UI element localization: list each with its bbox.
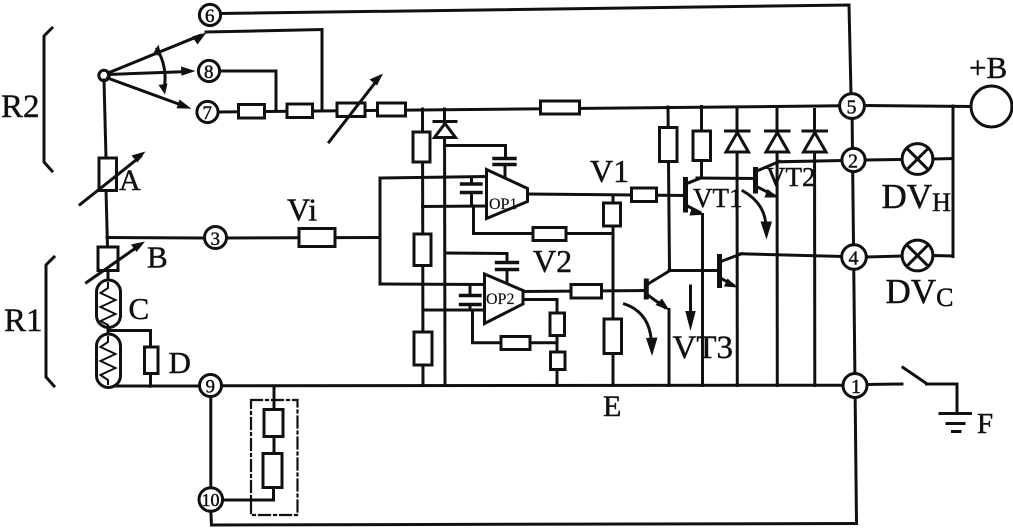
wire: VT3a emitter column <box>668 310 671 386</box>
resistor: OP1 feedback R <box>533 228 566 241</box>
transistor VT2 collector diagonal <box>756 162 780 172</box>
pin 6 <box>199 4 220 27</box>
arrow: current arrow straight near VT3 <box>689 286 692 314</box>
svg-text:VT3: VT3 <box>673 330 734 366</box>
wire: bias column x=668 <box>668 107 670 271</box>
capacitor: OP2 compensation <box>497 263 518 270</box>
svg-text:VT2: VT2 <box>766 162 816 192</box>
wire: OP1 feedback loop <box>474 206 614 234</box>
wire: VT1 collector link to VT2 base <box>697 177 756 181</box>
wire: wiper arrow to 8 <box>109 72 189 75</box>
pin 1 <box>843 374 867 399</box>
arrow: curved current arrow near VT2 <box>743 191 766 228</box>
wire: C to D <box>107 327 110 335</box>
transistor Q: VT1 emitter diagonal <box>686 205 701 213</box>
svg-text:+B: +B <box>969 50 1007 85</box>
svg-text:OP1: OP1 <box>489 196 517 213</box>
svg-text:Vi: Vi <box>287 192 317 228</box>
diode D3 <box>803 131 827 152</box>
switch: ignition switch blade <box>903 368 927 384</box>
svg-text:R1: R1 <box>4 303 43 339</box>
wire: OP2 aux output branch <box>523 300 558 386</box>
svg-text:6: 6 <box>205 6 215 27</box>
arrow: resistor A wiper <box>80 157 141 205</box>
arrow: curved current arrow near VT3a <box>625 304 652 345</box>
resistor: D parallel R <box>145 347 159 374</box>
wire: diode2 column <box>776 110 779 386</box>
wire: OP2 upper input rail <box>380 283 485 287</box>
wire: V1 node column down to bottom rail (node E) <box>612 195 615 386</box>
resistor: divider chain R3 (x=422 bottom) <box>414 332 432 365</box>
diode D2 <box>766 131 790 152</box>
wire: link between external resistors <box>273 437 276 454</box>
resistor: divider chain R2 (x=422 mid) <box>414 234 431 266</box>
op-amp OP2 <box>485 274 524 324</box>
resistor: V1 node upper R <box>604 203 621 226</box>
diode: zener on x=445 <box>434 122 456 138</box>
resistor: OP2 feedback R <box>501 337 530 350</box>
transistor VT1 base bar <box>683 180 688 211</box>
wire: bottom mid rail pin9 to pin1 <box>222 384 844 388</box>
svg-text:DVC: DVC <box>886 272 954 312</box>
wire: diode3 column <box>813 110 816 386</box>
resistor: aux branch R upper <box>550 313 565 336</box>
wire: OP1 output to VT1 base <box>528 194 685 196</box>
arrow: adjustable R arrow <box>329 79 378 142</box>
wire: top frame from pin 6 to right edge <box>220 5 851 94</box>
capacitor: OP1 input <box>462 184 482 193</box>
lamp DVH <box>902 144 933 175</box>
resistor: OP2 output series R <box>571 285 602 299</box>
svg-text:10: 10 <box>202 490 220 510</box>
svg-text:F: F <box>977 408 993 440</box>
svg-text:4: 4 <box>849 248 859 270</box>
pin 8 <box>198 60 219 83</box>
wire: OP1 compensation cap link <box>445 146 506 158</box>
wire: OP2 feedback loop <box>473 310 558 343</box>
resistor: external R top <box>264 410 283 437</box>
pin 7 <box>197 101 218 124</box>
resistor: VT1 bias R left <box>660 128 678 162</box>
transistor VT3a emitter diagonal <box>646 294 665 308</box>
wire: diode1 column <box>736 110 739 386</box>
wire: pin5 to +B terminal <box>865 106 972 107</box>
wire: pin4 to lamp DVC <box>867 256 903 257</box>
svg-text:8: 8 <box>204 62 214 83</box>
wire: external resistor bottom to pin10 <box>223 488 274 501</box>
wire: lamp DVH to feed <box>933 157 953 161</box>
transistor VT3b collector diagonal <box>720 254 742 262</box>
transistor VT3a base bar <box>644 281 649 297</box>
transistor VT3b base bar <box>717 257 722 286</box>
svg-text:OP2: OP2 <box>486 291 514 308</box>
wire: wiper node down to resistor A <box>104 80 106 158</box>
pin 5 <box>840 94 865 119</box>
wire: A to B chain with tap to pin3 <box>106 190 108 247</box>
transistor Q: VT1 collector diagonal <box>686 178 703 185</box>
wire: diode column x=445 <box>443 109 447 386</box>
wire: OP1 upper input rail <box>380 177 487 179</box>
resistor: pin7 row R b <box>287 104 313 118</box>
transistor VT3b emitter diagonal <box>720 278 734 286</box>
wire: input split vertical <box>379 178 382 284</box>
svg-text:V2: V2 <box>533 243 572 279</box>
wire: OP1 lower input <box>423 205 487 209</box>
capacitor: OP1 compensation <box>494 159 515 165</box>
pin 9 <box>200 375 222 398</box>
capacitor: OP2 input <box>461 296 481 305</box>
resistor: divider chain R1 (x=422 top) <box>413 132 430 162</box>
ground: symbol F <box>940 414 971 432</box>
wire: pin1 to switch <box>867 383 902 387</box>
wire: wiper arrow to 6 <box>108 36 200 74</box>
svg-text:V1: V1 <box>590 153 629 189</box>
wire: divider chain vertical x=422 <box>421 109 425 386</box>
svg-text:B: B <box>147 240 168 275</box>
resistor: VT1 bias R right <box>693 131 711 161</box>
thermistor D <box>97 334 121 388</box>
wire: OP2 compensation cap link <box>445 253 507 262</box>
pin 4 <box>842 245 867 270</box>
wire: pin8 branch <box>220 71 277 111</box>
wire: lamp DVC to feed <box>933 254 953 258</box>
wire: pin2 row <box>778 161 843 162</box>
svg-text:2: 2 <box>848 151 858 173</box>
resistor: OP1 output series R <box>632 188 657 202</box>
resistor A (variable) <box>99 158 117 191</box>
wire: OP2 lower input <box>423 309 485 312</box>
transistor VT2 emitter diagonal <box>756 186 775 196</box>
wire: D bottom to pin 9 <box>108 381 200 386</box>
resistor: adjustable R on rail <box>337 103 365 117</box>
svg-text:VT1: VT1 <box>693 183 743 213</box>
wire: OP2 output to VT3 base <box>523 291 647 292</box>
svg-text:A: A <box>119 164 141 197</box>
wire: D parallel resistor taps <box>109 331 151 348</box>
pin 2 <box>842 148 865 172</box>
wire: wiper arrow to 7 <box>108 78 185 106</box>
svg-text:7: 7 <box>203 103 213 124</box>
resistor: pin7 row R a <box>239 105 265 119</box>
bracket R1 <box>46 257 54 386</box>
resistor Vi <box>299 229 335 247</box>
resistor: main rail series R <box>541 101 580 114</box>
wire: pin9 to pin10 <box>209 397 212 489</box>
svg-text:9: 9 <box>206 377 216 398</box>
wire: tap to pin 3 <box>107 236 203 240</box>
wire: bottom frame rail <box>212 524 857 526</box>
svg-text:C: C <box>129 291 150 326</box>
arc: wiper range indicator <box>157 49 165 89</box>
svg-text:1: 1 <box>851 376 861 398</box>
node: R2 wiper node <box>99 70 109 80</box>
wire: bias column x=701.5 upper <box>700 107 703 179</box>
wire: pin6 inner branch <box>206 30 322 111</box>
terminal +B <box>971 86 1012 127</box>
diode D1 <box>726 131 750 152</box>
wire: switch to ground <box>927 384 958 413</box>
svg-text:R2: R2 <box>1 89 40 125</box>
lamp DVC <box>902 240 933 271</box>
wire: lamp feed column <box>952 106 955 257</box>
wire: pin10 to bottom rail <box>209 511 213 525</box>
box: dash-dot enclosure <box>251 400 298 515</box>
resistor: external R bottom <box>263 454 282 488</box>
resistor: rail R after adjustable <box>378 103 406 116</box>
wire: VT1 emitter column <box>701 215 704 386</box>
wire: external resistor stub from bottom rail <box>273 386 276 410</box>
wire: pin2 to lamp DVH <box>866 158 903 162</box>
resistor: aux branch R lower <box>551 352 566 370</box>
wire: right edge column pins 5-2-4-1 <box>852 106 857 523</box>
thermistor C <box>97 280 121 328</box>
pin 3 <box>205 227 227 251</box>
transistor VT2 base bar <box>753 170 758 192</box>
svg-text:E: E <box>603 390 621 423</box>
svg-text:3: 3 <box>211 229 221 250</box>
svg-text:5: 5 <box>847 97 857 119</box>
resistor B (variable) <box>98 247 118 271</box>
pin 10 <box>199 488 223 512</box>
arrow: resistor B wiper <box>87 245 141 283</box>
wire: main top rail pin7 to pin5 <box>218 106 840 112</box>
bracket R2 <box>44 28 52 171</box>
wire: pin3 to input divider via Vi <box>224 236 381 240</box>
transistor VT3a collector diagonal <box>646 271 670 286</box>
svg-text:DVH: DVH <box>882 177 952 217</box>
op-amp OP1 <box>487 170 528 219</box>
wire: B to C <box>107 271 110 282</box>
wire: VT3a collector to VT3b base <box>669 269 720 272</box>
wire: pin4 row from VT3 collector <box>741 254 842 257</box>
resistor: E column lower R <box>604 319 622 354</box>
svg-text:D: D <box>169 345 191 380</box>
